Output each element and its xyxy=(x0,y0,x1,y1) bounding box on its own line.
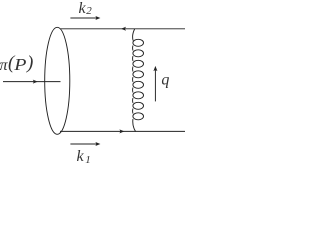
arrowhead pion line xyxy=(33,80,38,84)
wire top quark line xyxy=(61,28,186,30)
svg-text:k: k xyxy=(77,148,85,164)
momentum arrow k1 xyxy=(70,143,96,145)
arrowhead bottom quark line pointing right xyxy=(119,129,124,133)
wire bottom quark line xyxy=(60,130,185,132)
hadron blob ellipse xyxy=(45,27,70,134)
wire pion incoming line xyxy=(3,81,61,83)
svg-text:2: 2 xyxy=(86,5,92,17)
svg-text:q: q xyxy=(161,71,169,88)
svg-text:P: P xyxy=(13,55,26,74)
momentum arrow k2 xyxy=(70,17,96,19)
svg-text:1: 1 xyxy=(85,154,91,164)
momentum arrow q xyxy=(154,70,156,101)
arrowhead top quark line pointing left xyxy=(121,27,126,31)
gluon propagator coil xyxy=(133,29,144,131)
svg-text:): ) xyxy=(26,53,33,74)
